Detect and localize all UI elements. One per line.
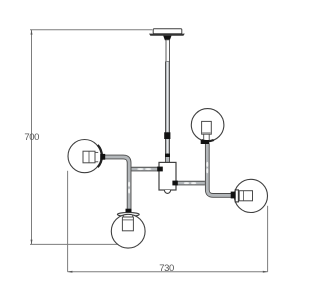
arrowhead 700 bottom [31,240,33,245]
svg-text:730: 730 [159,263,174,274]
lower-right bulb [239,191,252,201]
right vertical drop with elbow to lower-right globe [207,144,231,196]
highlight on right arm 2 [191,182,196,184]
upper-left bulb neck line bottom [95,161,98,163]
stem connector band lower [165,154,170,157]
upper-left bulb divider [88,152,90,163]
highlight on left vertical drop 2 [128,189,130,194]
upper-right socket [201,140,210,144]
svg-text:700: 700 [24,132,39,143]
highlight on left vertical drop [128,182,130,187]
lower-right connector [231,192,236,199]
dimension extension line left (730) [67,171,69,272]
lower-left bulb [122,217,133,231]
highlight on right vertical drop [206,162,208,167]
dimension extension line right (730) [267,206,269,272]
upper-left globe neck arc [98,145,102,167]
upper-right bulb socket band [202,132,211,134]
stem connector band upper [164,132,170,139]
lower-right bulb divider [242,191,244,201]
lower-left bulb divider [123,219,134,221]
upper-left globe [68,140,101,173]
body bottom bump [164,190,170,193]
ceiling canopy box [153,29,182,34]
dimension extension line top (700) [30,29,152,31]
highlight on left branch [137,168,143,170]
right arm tube (body to right drop) [177,181,205,186]
upper-right bulb [202,121,212,134]
lower-left bulb neck line left [123,215,125,218]
body right connector [172,181,177,186]
highlight on right vertical drop 2 [206,168,208,173]
upper-right globe neck arc [202,140,214,141]
dimension line 730 horizontal [68,271,268,273]
lower-right globe neck [235,190,238,202]
arrowhead 730 left [68,271,73,273]
lower-left cap plate [117,213,139,217]
upper-right bulb neck line left [203,134,205,140]
arrowhead 730 right [263,271,268,273]
left branch tube (body to left drop) [131,167,158,172]
upper-right bulb neck line right [208,134,210,140]
left arm with elbow and vertical drop [105,157,129,209]
highlight on right arm [184,182,189,184]
lower-left connector band [126,209,132,213]
body left connector [157,167,163,172]
lower-left globe [111,214,145,248]
upper-left bulb [83,151,95,163]
stem lower tube [165,62,170,163]
dimension line 700 vertical [31,30,33,245]
arrowhead 700 top [31,30,33,35]
upper-left socket [100,154,105,160]
canopy plate [149,34,185,36]
lower-left bulb neck line right [132,215,134,218]
dimension extension line bottom (700) [30,243,118,245]
lower-right globe [234,179,267,212]
upper-right globe [191,109,224,142]
upper-left bulb neck line top [95,151,98,153]
highlight on left branch 2 [145,168,151,170]
canopy cone connector [163,36,171,41]
central body [159,162,176,190]
stem upper white tube [166,40,170,62]
